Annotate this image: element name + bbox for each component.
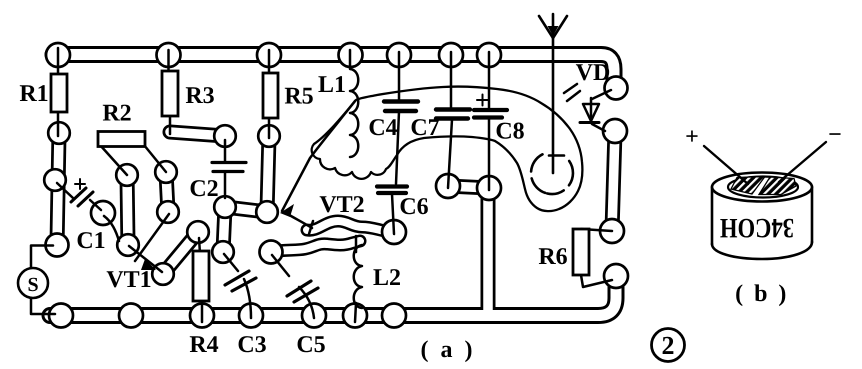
svg-text:VD: VD — [576, 60, 611, 86]
svg-text:C7: C7 — [410, 115, 439, 141]
svg-text:S: S — [27, 274, 38, 296]
svg-text:VT2: VT2 — [319, 192, 364, 218]
svg-text:( b ): ( b ) — [735, 281, 789, 307]
svg-text:C5: C5 — [296, 332, 325, 358]
svg-text:C8: C8 — [495, 119, 524, 145]
svg-text:R1: R1 — [19, 81, 48, 107]
svg-text:R4: R4 — [189, 332, 218, 358]
svg-text:2: 2 — [662, 331, 675, 360]
svg-text:−: − — [828, 122, 842, 148]
svg-text:C4: C4 — [368, 115, 397, 141]
svg-text:R5: R5 — [284, 84, 313, 110]
svg-text:+: + — [685, 124, 699, 150]
svg-text:R3: R3 — [185, 83, 214, 109]
svg-text:L2: L2 — [373, 265, 401, 291]
svg-text:R6: R6 — [538, 244, 567, 270]
svg-text:C1: C1 — [76, 228, 105, 254]
svg-text:C6: C6 — [399, 194, 428, 220]
svg-text:VT1: VT1 — [106, 267, 151, 293]
svg-text:C3: C3 — [237, 332, 266, 358]
svg-text:34СОН: 34СОН — [720, 212, 794, 243]
svg-text:L1: L1 — [318, 72, 346, 98]
svg-text:C2: C2 — [189, 176, 218, 202]
svg-text:( a ): ( a ) — [421, 337, 476, 363]
svg-text:R2: R2 — [102, 101, 131, 127]
